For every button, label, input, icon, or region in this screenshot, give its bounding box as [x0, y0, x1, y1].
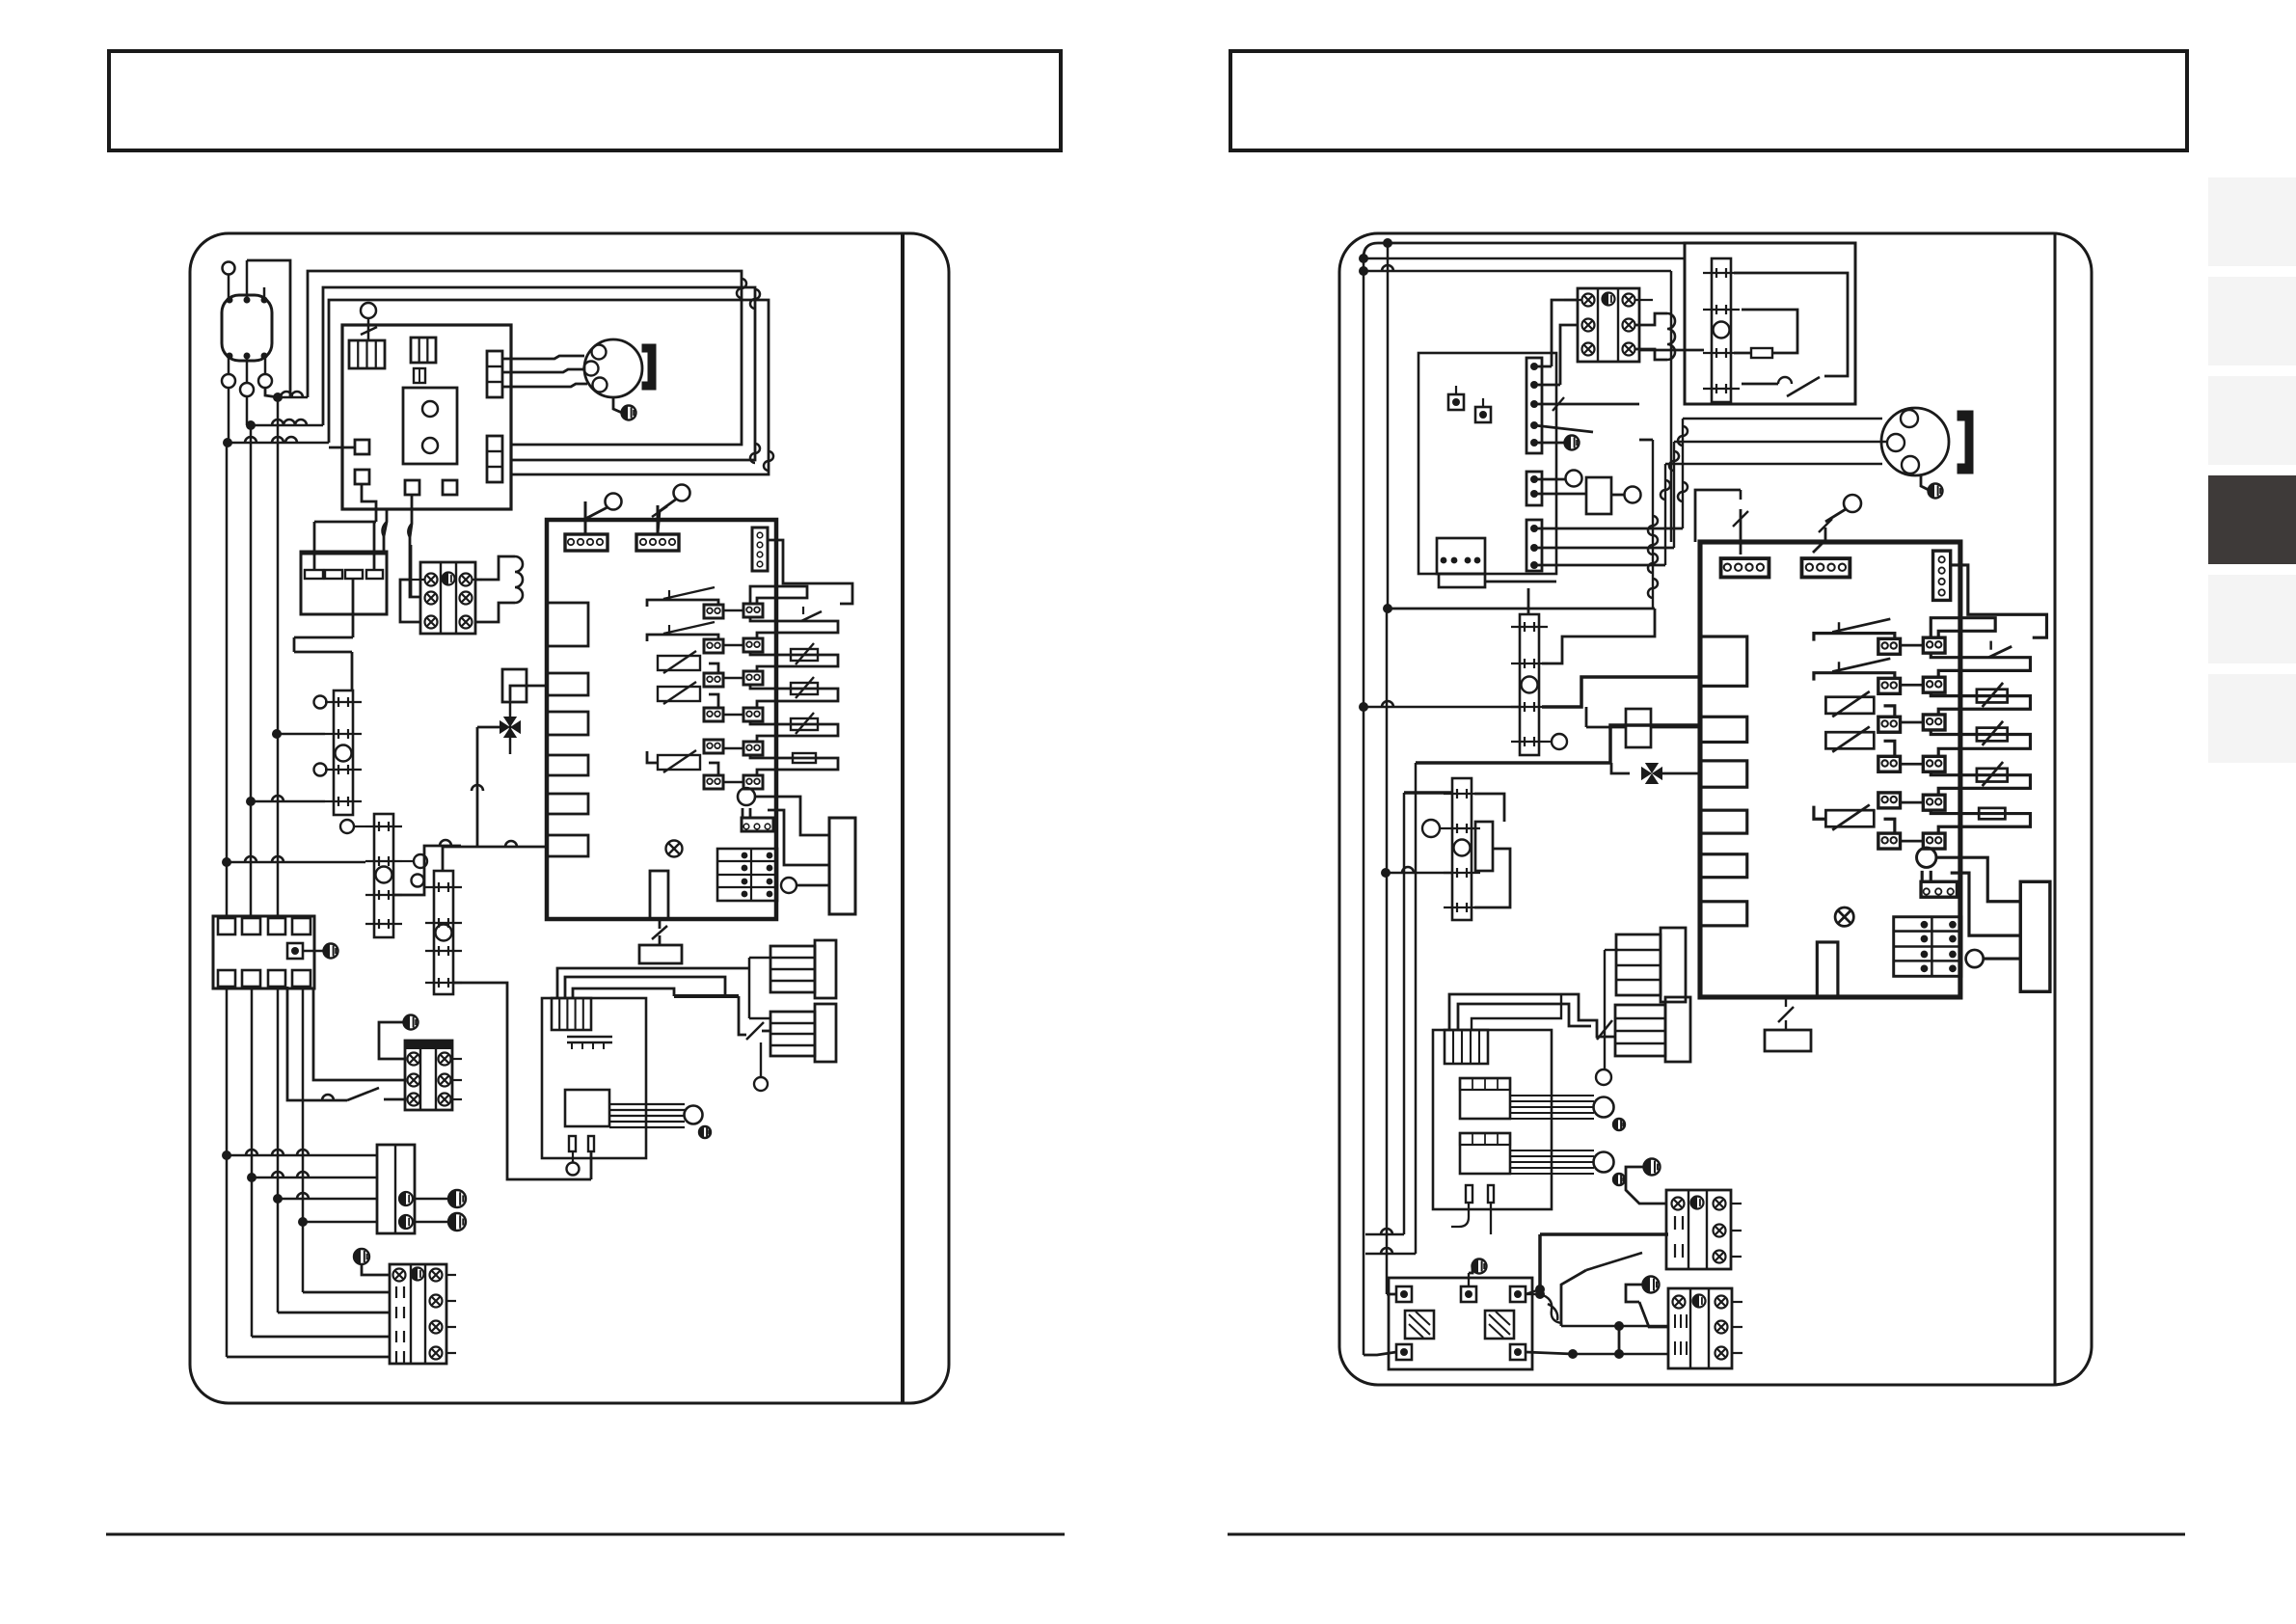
bus R2 vertical — [1363, 257, 1365, 1355]
RB relay circle b — [1625, 487, 1641, 503]
wire fuse to stack — [351, 652, 354, 690]
heater comb A1a — [349, 340, 385, 368]
QR1 inner loop — [1734, 273, 1848, 376]
right programmer comb — [1445, 1030, 1488, 1064]
selector circle S1 — [606, 494, 622, 510]
inductor KR1 — [1635, 313, 1667, 325]
valve Y1 — [509, 700, 512, 754]
contactor stack QR1 — [1712, 258, 1731, 402]
Q3 top feed — [443, 847, 547, 871]
PCB2 CN-C wires — [1951, 565, 2047, 637]
PCB1 pin boxes column — [743, 604, 763, 617]
junction M2 — [247, 1173, 257, 1182]
right prog circle — [1596, 1069, 1611, 1085]
PCB1 indicator lamp — [666, 841, 683, 857]
heater switch circle — [754, 1077, 768, 1091]
junction R2a — [1359, 702, 1368, 712]
PCB1 side block — [829, 818, 855, 914]
PCB2 side block — [2020, 881, 2050, 991]
T3 earth — [404, 1015, 419, 1030]
right prog motor 2 — [1594, 1152, 1614, 1173]
programmer comb — [552, 998, 591, 1030]
door switch S3 — [287, 987, 347, 1100]
Q3 bottom feed — [452, 983, 591, 1179]
heater bank 1 cap — [815, 940, 836, 998]
PCB2 link row 1 switch — [1931, 653, 2030, 677]
plug leads to junctions — [228, 388, 230, 443]
side tab 3 — [2208, 376, 2296, 465]
side tab 2 — [2208, 277, 2296, 365]
defrost box D1 — [502, 669, 527, 702]
right prog earth 2 — [1613, 1174, 1625, 1185]
relay unit box RU — [1685, 243, 1855, 404]
right page footer rule — [1228, 1533, 2185, 1536]
junction M1 — [222, 1150, 231, 1160]
PCB2 link row 4 thermistor — [1931, 771, 2030, 795]
bus wire L2 vertical — [250, 425, 253, 918]
RB coil box — [1586, 477, 1611, 514]
left appliance spine — [901, 233, 905, 1403]
T4 earth — [354, 1249, 369, 1264]
Q1 aux circle a — [314, 696, 327, 709]
control unit box RB — [1418, 353, 1556, 574]
TR1 to QR1 wire — [1639, 349, 1704, 352]
QR1 fuse — [1751, 348, 1772, 358]
relay block A1d — [403, 388, 457, 464]
side tab 4 (active) — [2208, 475, 2296, 564]
side tab 5 — [2208, 575, 2296, 663]
PCB2 select circle — [1966, 950, 1984, 967]
PCB1 connector CN-B — [636, 534, 679, 551]
TRF pad BR — [1510, 1344, 1526, 1360]
wire bundle riser — [1652, 440, 1654, 609]
PCB2 bottom fuse — [1817, 942, 1838, 997]
heater bank 1 rows — [770, 946, 815, 992]
contact square A1f — [355, 470, 369, 484]
QR2 staircase — [1542, 677, 1700, 707]
bus wire L3 vertical — [226, 443, 229, 918]
TRF wire left top — [1387, 1293, 1396, 1296]
PCB2 edge tabs — [1700, 636, 1747, 686]
PCB2 link row 2 thermistor — [1931, 692, 2030, 715]
junction L2 lower — [246, 797, 256, 806]
heater switch slash — [746, 1022, 764, 1040]
plug X1 — [222, 295, 272, 361]
right header box — [1230, 51, 2187, 150]
motor MR1 earth — [1921, 474, 1929, 490]
bus R1 vertical — [1387, 243, 1390, 609]
right terminal block T6 — [1668, 1288, 1732, 1368]
valve wire — [510, 686, 527, 700]
terminal block T3 — [405, 1041, 452, 1049]
wire T1 left — [400, 580, 420, 622]
PCB1 link row 1 switch — [750, 617, 838, 638]
right programmer box — [1433, 1030, 1552, 1209]
RB pad a — [1448, 394, 1464, 410]
junction L3 — [223, 438, 232, 447]
right prog unit 1 — [1460, 1078, 1510, 1119]
RB pad b — [1475, 407, 1491, 422]
wire A1h drop — [384, 509, 387, 552]
bus R3 horizontal — [1364, 270, 1671, 273]
bus wire L1 vertical — [277, 397, 280, 918]
motor wire drops — [1682, 419, 1684, 528]
PCB1 select circle — [781, 878, 797, 893]
wire A1e stub — [329, 447, 355, 449]
motor wires — [502, 356, 584, 359]
wire bus segment x495 — [477, 726, 502, 729]
loop wire C — [329, 300, 769, 474]
loop wire B — [323, 287, 755, 460]
programmer timer box — [542, 998, 646, 1158]
PCB2 link row 3 thermistor — [1931, 730, 2030, 756]
plug terminal circle top — [223, 262, 235, 275]
T5 earth — [1644, 1159, 1661, 1176]
PCB1 feed wire top — [584, 501, 587, 534]
junction R1b — [1381, 868, 1391, 878]
heater bank R2 cap — [1665, 997, 1690, 1062]
PCB1 bottom fuse — [650, 871, 668, 919]
contact square A1g — [405, 480, 419, 495]
PCB2 feed junction — [1695, 490, 1741, 542]
junction M3 — [273, 1194, 283, 1204]
selector circle S2 — [674, 485, 690, 501]
QR2 right circle — [1552, 734, 1567, 749]
right appliance outline — [1339, 233, 2092, 1385]
TRF earth — [1472, 1259, 1487, 1274]
Q1 aux circle b — [314, 764, 327, 776]
junction RD2 — [1568, 1349, 1578, 1359]
left appliance outline — [190, 233, 949, 1403]
PCB2 relay row 5 thermistor — [1878, 793, 1901, 808]
service switch box — [639, 945, 682, 963]
motor MR1 — [1881, 408, 1949, 475]
PCB2 buzzer circle — [1917, 848, 1936, 868]
PCB1 relay row 4 thermistor — [658, 687, 700, 701]
PCB2 dot terminal matrix — [1894, 917, 1961, 977]
junction R3 — [1359, 266, 1368, 276]
junction L1 lower — [272, 729, 282, 739]
main board PCB2 outline — [1700, 542, 1960, 997]
PCB1 relay row 5 thermistor — [704, 740, 723, 753]
bus wires below CN2 — [226, 988, 229, 1155]
PCB1 edge tabs — [547, 603, 588, 646]
motor bracket — [642, 344, 656, 390]
CN2 earth pin — [287, 943, 303, 959]
right service box — [1765, 1030, 1811, 1051]
wire CN2 to T3 — [313, 988, 405, 1080]
PCB1 connector CN-A — [565, 534, 608, 551]
programmer contact rake — [567, 1036, 612, 1038]
right service switch — [1778, 1007, 1794, 1022]
PCB1 link row 2 thermistor — [750, 652, 838, 671]
right inner loop wire — [1364, 243, 1685, 257]
staircase bus — [674, 994, 739, 998]
programmer inner unit — [565, 1090, 609, 1126]
bus R2 horizontal — [1364, 257, 1685, 260]
terminal block TR1 — [1578, 288, 1639, 362]
Q2 aux circle — [340, 820, 354, 833]
right terminal block T5 — [1666, 1190, 1731, 1269]
terminal block T1 — [420, 562, 475, 634]
fan motor M1 — [584, 339, 642, 397]
PCB1 connector CN-D — [742, 818, 773, 831]
contact square A1h — [443, 480, 457, 495]
PCB2 relay row 2 switch — [1814, 673, 1895, 681]
transformer box TRF — [1389, 1278, 1532, 1369]
wire L1 to loop — [278, 396, 308, 399]
PCB2 relay row 3 thermistor — [1825, 697, 1874, 714]
PCB2 indicator lamp — [1835, 907, 1853, 926]
junction R1 bottom — [1383, 604, 1392, 613]
programmer motor M2 — [685, 1106, 703, 1124]
QR2 feed top — [1527, 588, 1530, 614]
motor earth — [613, 397, 622, 413]
control box A1 — [342, 325, 511, 509]
motor MR1 wires — [1683, 418, 1882, 420]
programmer fuse pins — [569, 1136, 576, 1151]
heater bank R1 rows — [1616, 934, 1661, 995]
RB pin header third — [1526, 520, 1542, 571]
wire A1f to fuse — [362, 484, 376, 522]
RB earth — [1565, 436, 1580, 450]
RB relay circle a — [1566, 471, 1582, 487]
TRF pad TL — [1396, 1286, 1412, 1302]
heater bank R1 cap — [1661, 928, 1686, 1002]
right prog motor 1 — [1594, 1097, 1614, 1118]
wire below fuse box — [352, 614, 355, 637]
relay box RR1 — [1626, 709, 1651, 747]
junction RD1 — [1614, 1321, 1624, 1331]
PCB2 relay row 4 thermistor — [1825, 732, 1874, 748]
right prog earth 1 — [1613, 1119, 1625, 1130]
connector stack A1 right top — [487, 351, 502, 397]
wire plug to bus — [246, 260, 249, 297]
T6 earth — [1643, 1277, 1660, 1293]
programmer output wire — [590, 1151, 593, 1179]
heater bank 2 rows — [770, 1012, 815, 1056]
PCB2 connector CN-A — [1721, 558, 1769, 577]
comb A1c — [414, 368, 425, 383]
wire Q2 to PCB — [393, 846, 461, 895]
terminal block T4 — [390, 1264, 446, 1364]
connector stack A1 right bottom — [487, 436, 502, 482]
main board PCB1 outline — [547, 520, 776, 919]
PCB2 connector CN-B — [1801, 558, 1850, 577]
PCB2 pin boxes column — [1923, 637, 1945, 653]
PCB1 side block wires — [755, 797, 829, 835]
T2 earth circles — [415, 1198, 448, 1200]
inductor K1 — [475, 556, 515, 580]
heater switch circle stem — [760, 1042, 762, 1077]
side tab 6 — [2208, 674, 2296, 763]
PCB2 top jumper — [1931, 618, 1995, 638]
junction RD3 — [1614, 1349, 1624, 1359]
feed wires to block T2 — [227, 1154, 377, 1157]
PCB1 link row 3 thermistor — [750, 685, 838, 708]
right heater drop wire — [1604, 950, 1606, 1069]
right panel misc wires — [1365, 1233, 1404, 1236]
bus R1 continues — [1386, 609, 1389, 1294]
PCB1 relay row 2 switch — [647, 635, 718, 641]
Q2 right circle — [414, 854, 427, 868]
junction R1 — [1383, 238, 1392, 248]
fuse box F1 — [301, 552, 387, 614]
contactor stack QR3 — [1452, 778, 1472, 920]
heater bank R2 rows — [1615, 1005, 1665, 1056]
PCB2 link row 5 fuse — [1931, 810, 2030, 833]
T2 pe screws — [399, 1192, 413, 1205]
PCB1 relay row 3 thermistor — [658, 656, 700, 670]
junction L1 — [273, 392, 283, 402]
side tab 1 — [2208, 177, 2296, 266]
TRF pad TR — [1510, 1286, 1526, 1302]
RB bottom wire — [1485, 581, 1556, 583]
contactor stack Q3 — [434, 871, 453, 994]
RB pin header lower — [1526, 472, 1542, 505]
contactor stack Q1 — [334, 690, 353, 815]
PCB1 connector CN-C — [752, 528, 768, 571]
wire L2 to loop — [251, 424, 323, 427]
right appliance spine — [2054, 233, 2057, 1385]
bus tails to T4 — [226, 1155, 229, 1357]
left page footer rule — [106, 1533, 1065, 1536]
junction M4 — [298, 1217, 308, 1227]
staircase wire 1 — [557, 968, 749, 998]
TRF winding 2 — [1485, 1311, 1514, 1339]
TRF pad BL — [1396, 1344, 1412, 1360]
RB pin wires — [1534, 365, 1552, 368]
motor MR1 bracket — [1958, 411, 1973, 474]
staircase wire 2 — [565, 977, 725, 998]
PCB1 dot terminal matrix — [717, 849, 777, 901]
programmer pin circle — [567, 1163, 580, 1176]
PCB2 connector CN-D — [1921, 881, 1957, 897]
bottom wires — [1526, 1352, 1573, 1354]
PCB2 relay row 1 switch — [1814, 634, 1895, 641]
TRF pad TC — [1461, 1286, 1476, 1302]
PCB1 CN-C wires — [768, 540, 852, 604]
heater feed riser B — [739, 996, 746, 1035]
PCB1 buzzer circle — [738, 788, 755, 805]
programmer motor earth — [699, 1126, 711, 1138]
junction L2 — [246, 420, 256, 430]
TRF wires right — [1535, 1289, 1545, 1299]
left header box — [109, 51, 1061, 150]
right prog unit 2 — [1460, 1133, 1510, 1174]
connector block CN2 — [213, 916, 314, 988]
RB pin header — [1526, 358, 1542, 453]
junction L3 lower — [222, 857, 231, 867]
right prog switch slash — [1597, 1020, 1612, 1040]
PCB2 connector CN-C — [1933, 551, 1951, 600]
junction R2 — [1359, 254, 1368, 263]
Q3 aux circle — [412, 875, 424, 887]
PCB2 feed wire top — [1740, 509, 1742, 555]
TRF winding 1 — [1405, 1311, 1434, 1339]
plug terminal circles bottom — [222, 374, 235, 388]
PCB1 relay row 1 switch — [647, 600, 718, 607]
wire L3 to loop — [228, 442, 329, 445]
PCB1 top jumper — [750, 586, 807, 604]
right prog pins — [1466, 1185, 1472, 1203]
overload circle A1 — [361, 303, 376, 318]
valve YR1 — [1641, 767, 1652, 780]
TRF wire left bottom — [1364, 1352, 1396, 1355]
PCB1 link row 5 fuse — [750, 755, 838, 775]
contact square A1e — [355, 440, 369, 454]
contactor stack QR2 — [1520, 614, 1539, 755]
door switch right — [1586, 1253, 1642, 1270]
loop wire A — [308, 271, 742, 445]
staircase wire 3 — [573, 988, 674, 998]
heater comb A1b — [411, 338, 436, 363]
right prog staircases — [1449, 994, 1615, 1037]
block T2 — [377, 1145, 415, 1233]
PCB1 link row 4 thermistor — [750, 721, 838, 742]
RB lower wires — [1534, 528, 1683, 530]
thick feed wire — [1538, 1234, 1542, 1289]
selector circle SR2 — [1844, 495, 1861, 512]
QR3 aux circle — [1422, 820, 1440, 837]
right PCB (scaled copy) — [547, 22, 549, 24]
vertical feeds down — [1403, 793, 1406, 1234]
wire A1g to T1 — [410, 495, 420, 597]
TR1 feed wires — [1552, 300, 1578, 366]
QR2 to coil — [1542, 609, 1655, 663]
wire PCB1 bottom switch — [659, 919, 662, 929]
RB connector 4dot — [1437, 538, 1485, 574]
PCB2 side block wires — [1936, 857, 2020, 902]
thick wire T3r — [1416, 725, 1700, 763]
contactor stack Q2 — [374, 814, 393, 937]
heater feed riser A — [748, 958, 751, 1018]
QR3 box right — [1475, 822, 1493, 871]
heater bank 2 cap — [815, 1004, 836, 1062]
